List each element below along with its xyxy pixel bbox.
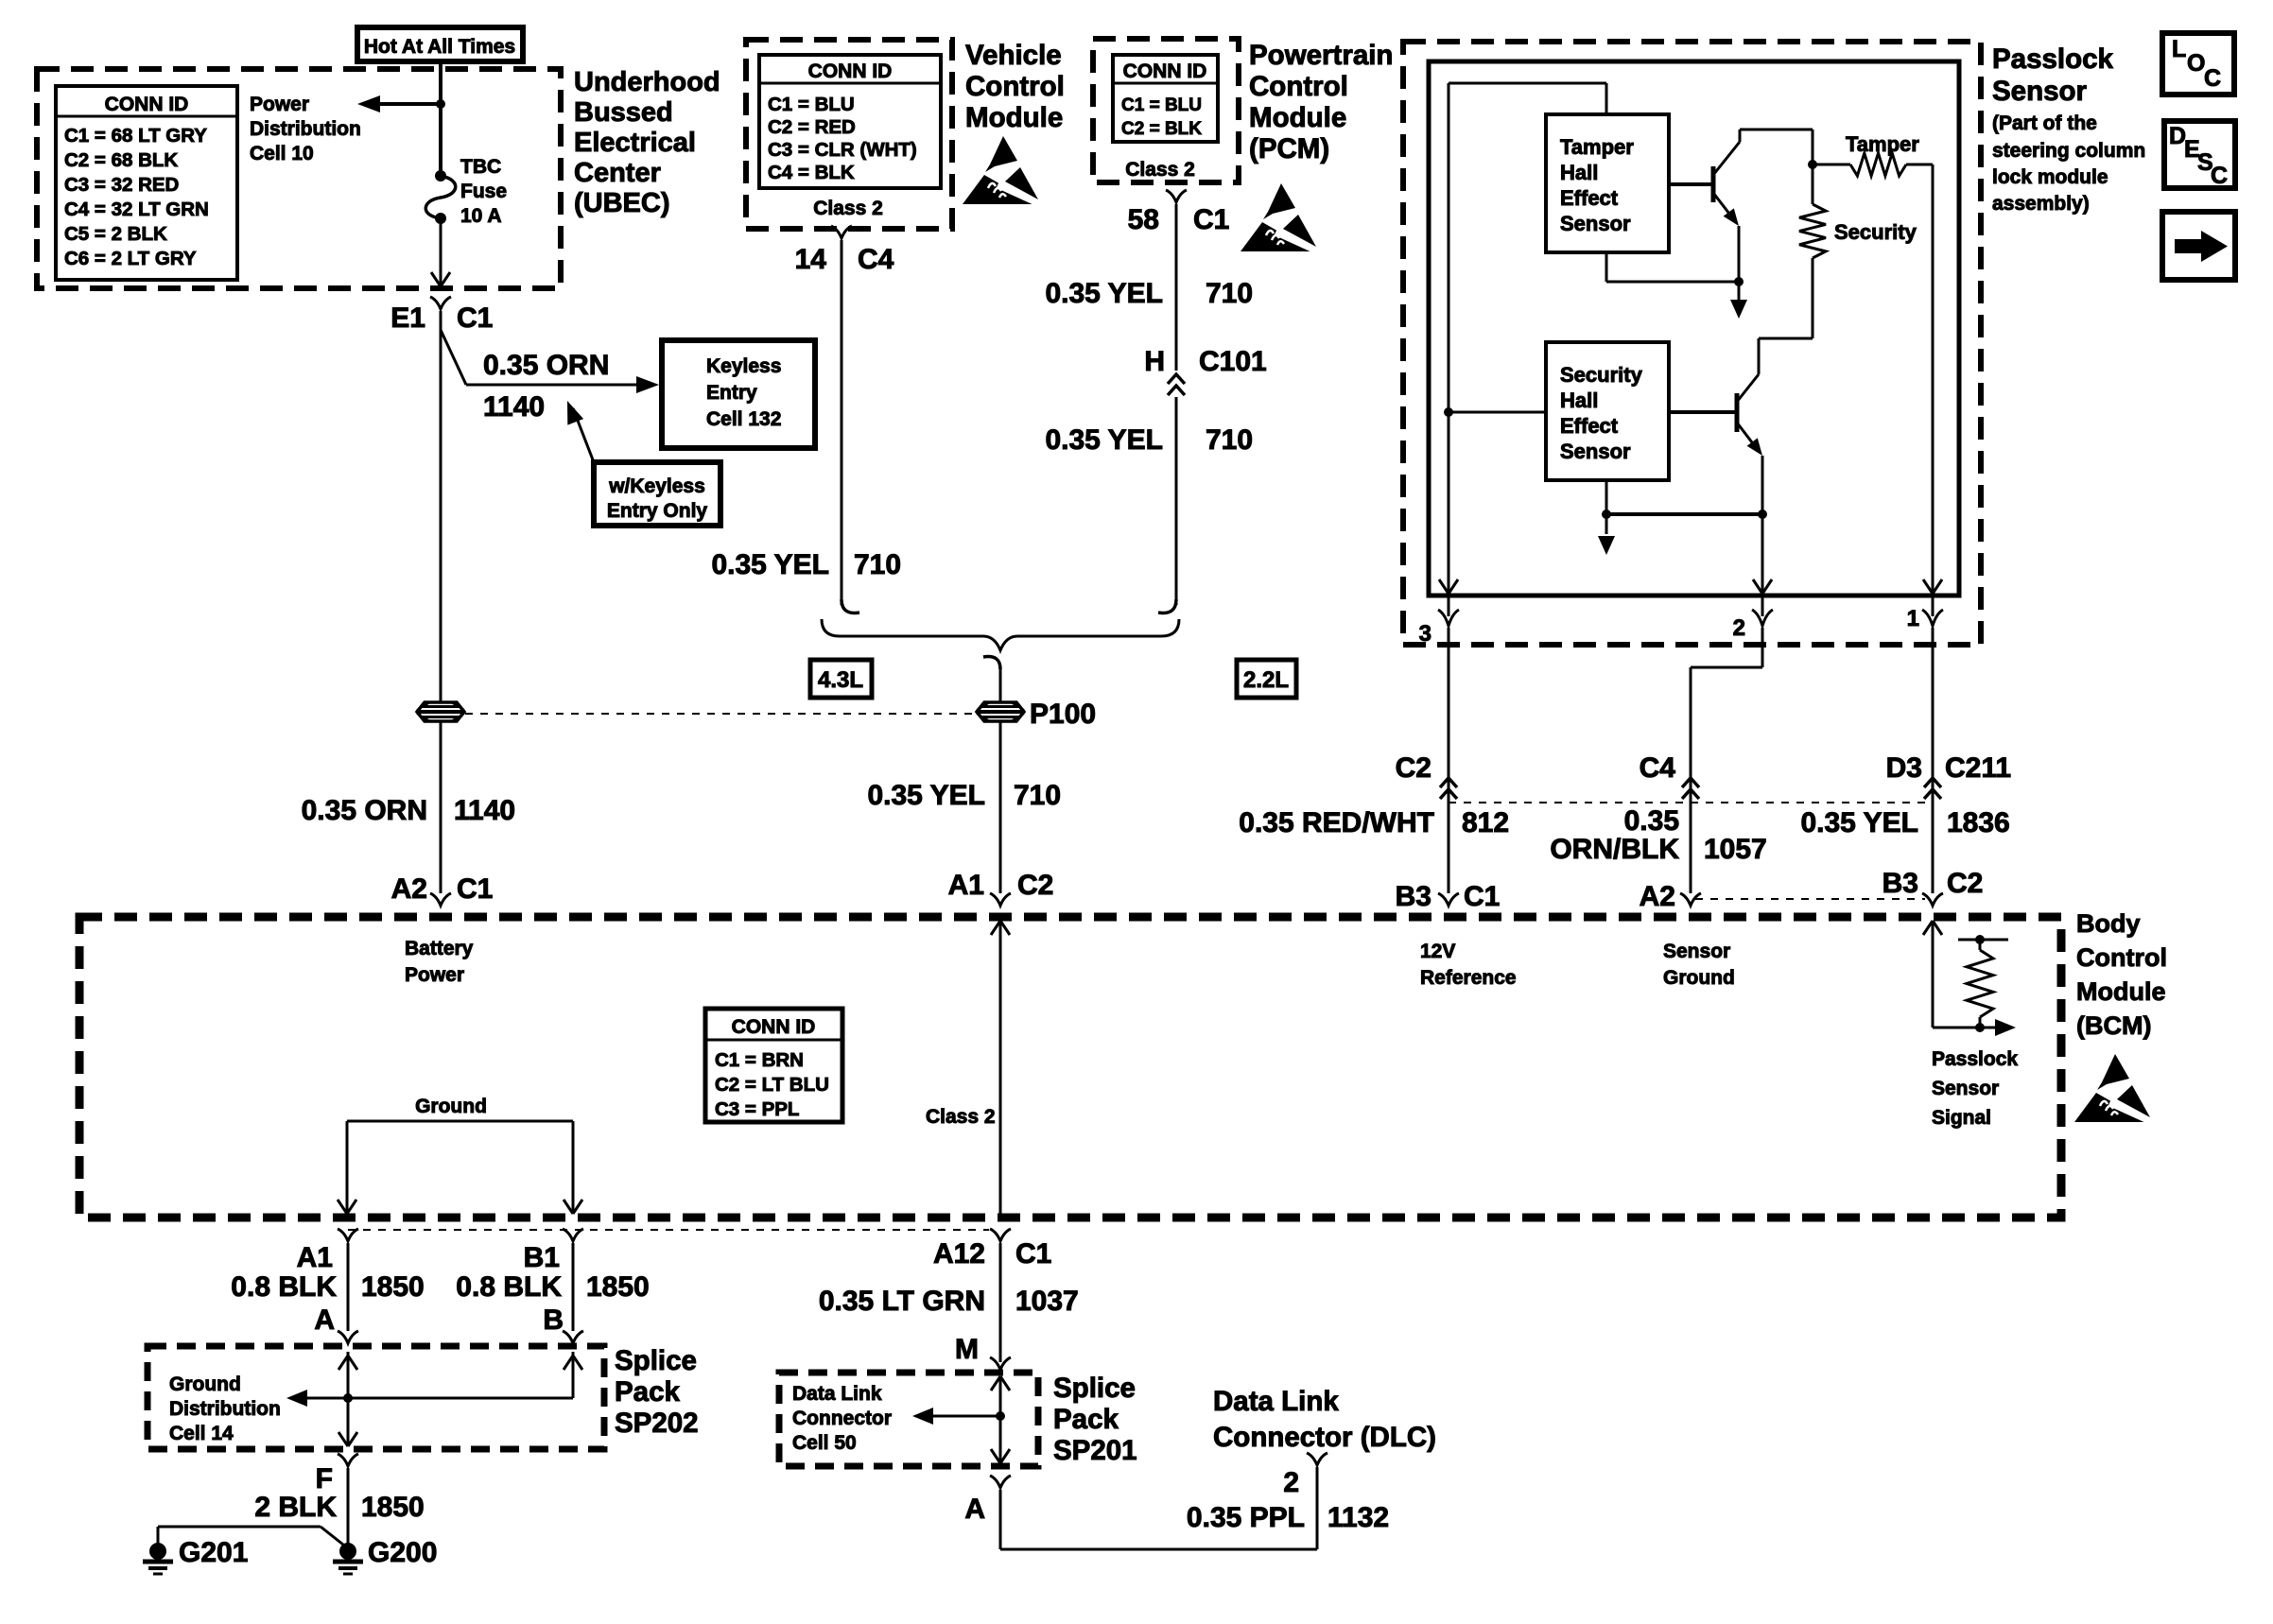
svg-text:710: 710 xyxy=(1206,424,1253,456)
wire 2 BLK 1850 xyxy=(347,1468,350,1551)
connector F xyxy=(316,1454,358,1494)
annotation (Part of the steering column lock module assembly) xyxy=(1992,112,2145,215)
svg-text:Tamper: Tamper xyxy=(1560,135,1634,159)
ESD symbol (VCM) xyxy=(963,136,1041,205)
connector B (splice pack) xyxy=(543,1304,583,1343)
svg-text:C2 = 68 BLK: C2 = 68 BLK xyxy=(64,149,178,171)
svg-text:Powertrain: Powertrain xyxy=(1249,40,1393,71)
component box Tamper Hall Effect Sensor xyxy=(1546,114,1669,252)
arrow to Power Distribution xyxy=(357,95,441,112)
svg-text:B1: B1 xyxy=(524,1242,560,1273)
svg-text:Passlock: Passlock xyxy=(1992,43,2114,75)
svg-text:Connector: Connector xyxy=(792,1408,892,1429)
module title Splice Pack SP201 xyxy=(1053,1373,1137,1466)
svg-text:w/Keyless: w/Keyless xyxy=(608,475,705,497)
icon box DESC xyxy=(2164,121,2235,189)
ESD symbol (BCM) xyxy=(2074,1054,2153,1123)
svg-text:14: 14 xyxy=(795,244,827,275)
module title Vehicle Control Module xyxy=(965,40,1065,133)
svg-text:Connector (DLC): Connector (DLC) xyxy=(1213,1422,1436,1453)
svg-text:Effect: Effect xyxy=(1560,414,1619,438)
svg-text:Cell 14: Cell 14 xyxy=(169,1423,234,1444)
wire Q1 emitter down xyxy=(1738,226,1741,282)
wire 0.8 BLK 1850 (A) xyxy=(347,1243,350,1331)
brace joining VCM and PCM wires xyxy=(822,619,1179,650)
label 0.35 YEL | 710 (PCM lower) xyxy=(1045,424,1253,456)
connector 58 / C1 xyxy=(1128,190,1230,235)
reference box Keyless Entry Cell 132 xyxy=(662,340,815,448)
svg-text:O: O xyxy=(2187,50,2205,77)
inline connector C4 (pin2) xyxy=(1640,752,1699,799)
svg-text:Keyless: Keyless xyxy=(706,355,781,377)
arrow to Ground Distribution xyxy=(286,1390,348,1407)
connector A (SP201 out) xyxy=(964,1476,1011,1525)
svg-text:1140: 1140 xyxy=(483,391,545,423)
svg-text:C1 = BRN: C1 = BRN xyxy=(715,1049,804,1071)
svg-text:C2: C2 xyxy=(1017,870,1053,901)
svg-text:C2 = LT BLU: C2 = LT BLU xyxy=(715,1074,829,1096)
svg-text:1850: 1850 xyxy=(361,1271,425,1303)
connector A2 / C1 (BCM) xyxy=(391,873,494,906)
ground G201 xyxy=(143,1537,248,1574)
wire brace to P100 xyxy=(983,657,1000,703)
node junction on battery feed xyxy=(436,99,445,109)
label box 4.3L xyxy=(810,660,872,698)
connector table BCM CONN ID xyxy=(705,1009,842,1122)
passlock inner housing box xyxy=(1429,61,1959,596)
connector table PCM CONN ID xyxy=(1113,55,1218,142)
thin dashed connector line A2-C2 row xyxy=(1695,898,1925,900)
svg-text:Class 2: Class 2 xyxy=(813,198,883,219)
svg-text:CONN ID: CONN ID xyxy=(105,94,189,115)
module box Powertrain Control Module (dashed) xyxy=(1093,39,1239,182)
label 0.35 YEL | 1836 xyxy=(1800,807,2009,838)
svg-text:M: M xyxy=(955,1334,979,1365)
svg-text:assembly): assembly) xyxy=(1992,193,2090,215)
resistor BCM passlock pull-up xyxy=(1958,935,2008,1032)
connector B3 / C2 (BCM passlock signal) xyxy=(1883,868,1984,906)
annotation Battery Power xyxy=(405,938,474,986)
svg-text:3: 3 xyxy=(1419,621,1431,647)
svg-text:SP201: SP201 xyxy=(1053,1435,1137,1466)
svg-text:1140: 1140 xyxy=(454,795,515,826)
node tamper junction xyxy=(1808,160,1817,169)
svg-text:0.35: 0.35 xyxy=(1624,805,1679,837)
svg-text:0.35 YEL: 0.35 YEL xyxy=(1045,424,1163,456)
svg-text:B: B xyxy=(543,1304,564,1336)
svg-text:C4 = 32 LT GRN: C4 = 32 LT GRN xyxy=(64,199,209,220)
transistor Q1 (tamper) xyxy=(1669,130,1740,226)
connector A1 (ground) xyxy=(297,1229,358,1273)
thin dashed connector line C2-C4-C211 xyxy=(1449,802,1933,803)
module title Body Control Module (BCM) xyxy=(2076,909,2167,1040)
svg-text:12V: 12V xyxy=(1420,941,1455,962)
wire security box bottom stub xyxy=(1602,480,1762,519)
svg-text:Entry Only: Entry Only xyxy=(607,500,708,522)
svg-text:Splice: Splice xyxy=(615,1345,697,1376)
annotation Ground Distribution Cell 14 xyxy=(169,1373,281,1444)
connector passlock pin 2 xyxy=(1733,610,1773,641)
label 0.8 BLK | 1850 (A) xyxy=(231,1271,424,1303)
svg-text:0.35 PPL: 0.35 PPL xyxy=(1187,1502,1305,1533)
svg-text:lock module: lock module xyxy=(1992,166,2108,188)
label 0.35 YEL | 710 (VCM) xyxy=(711,549,901,580)
svg-text:0.35 ORN: 0.35 ORN xyxy=(483,350,609,381)
svg-text:Fuse: Fuse xyxy=(460,181,507,202)
wire 0.35 PPL 1132 xyxy=(1000,1467,1317,1549)
svg-text:Sensor: Sensor xyxy=(1560,440,1631,463)
label 0.35 LT GRN | 1037 xyxy=(819,1286,1079,1317)
svg-text:Signal: Signal xyxy=(1932,1107,1991,1129)
inline connector C2 (pin3) xyxy=(1396,752,1457,799)
annotation Power Distribution Cell 10 xyxy=(250,94,361,164)
svg-text:G201: G201 xyxy=(179,1537,248,1568)
connector table UBEC CONN ID xyxy=(56,86,237,280)
svg-text:C4 = BLK: C4 = BLK xyxy=(768,162,855,183)
inline connector D3 / C211 (pin1) xyxy=(1886,752,2011,799)
wire passlock pin3 vertical xyxy=(1439,83,1458,594)
svg-text:0.35 LT GRN: 0.35 LT GRN xyxy=(819,1286,985,1317)
svg-text:C: C xyxy=(2211,163,2228,189)
connector A12 / C1 xyxy=(933,1229,1051,1270)
note box w/Keyless Entry Only with arrow xyxy=(567,401,720,526)
svg-text:H: H xyxy=(1144,346,1165,377)
svg-text:Sensor: Sensor xyxy=(1992,76,2088,107)
dashed grommet link line xyxy=(465,713,976,715)
wire tamper box bottom stub xyxy=(1606,252,1744,286)
svg-text:0.8 BLK: 0.8 BLK xyxy=(231,1271,337,1303)
wire G201 branch xyxy=(158,1527,348,1548)
module title Data Link Connector (DLC) xyxy=(1213,1386,1436,1453)
wire Q2 emitter to pin2 xyxy=(1753,456,1772,594)
svg-text:C2 = BLK: C2 = BLK xyxy=(1121,119,1202,139)
svg-text:2.2L: 2.2L xyxy=(1243,667,1289,693)
svg-text:G200: G200 xyxy=(368,1537,437,1568)
svg-text:C1: C1 xyxy=(457,873,493,905)
connector A1 / C2 (BCM) xyxy=(948,870,1054,906)
icon box LOC xyxy=(2162,33,2234,95)
svg-text:10 A: 10 A xyxy=(460,205,502,227)
svg-text:0.35 ORN: 0.35 ORN xyxy=(302,795,427,826)
label 0.35 PPL | 1132 xyxy=(1187,1502,1389,1533)
svg-text:A1: A1 xyxy=(948,870,984,901)
wire 0.35 ORN 1140 vertical xyxy=(440,311,442,893)
arrow passlock sensor signal xyxy=(1980,1019,2016,1036)
svg-text:Data Link: Data Link xyxy=(792,1383,882,1405)
svg-text:C1: C1 xyxy=(457,302,493,334)
svg-text:710: 710 xyxy=(1014,780,1061,811)
svg-text:Hall: Hall xyxy=(1560,161,1598,184)
svg-text:(Part of the: (Part of the xyxy=(1992,112,2097,134)
annotation Sensor Ground xyxy=(1663,941,1735,989)
svg-text:Bussed: Bussed xyxy=(574,97,673,128)
arrow emitter current (tamper) xyxy=(1730,282,1747,319)
wire splice SP201 vertical xyxy=(991,1376,1010,1463)
svg-text:A1: A1 xyxy=(297,1242,333,1273)
svg-text:E1: E1 xyxy=(390,302,425,334)
svg-text:Ground: Ground xyxy=(1663,967,1735,989)
connector DLC pin 2 xyxy=(1283,1453,1327,1498)
svg-text:B3: B3 xyxy=(1396,881,1431,912)
svg-text:Electrical: Electrical xyxy=(574,128,696,158)
svg-text:C1: C1 xyxy=(1015,1238,1051,1270)
svg-text:CONN ID: CONN ID xyxy=(808,60,893,82)
svg-text:Ground: Ground xyxy=(415,1096,487,1117)
svg-text:0.35 RED/WHT: 0.35 RED/WHT xyxy=(1239,807,1434,838)
svg-text:Cell 10: Cell 10 xyxy=(250,143,314,164)
svg-text:0.35 YEL: 0.35 YEL xyxy=(867,780,985,811)
svg-text:710: 710 xyxy=(1206,278,1253,309)
svg-text:Sensor: Sensor xyxy=(1663,941,1730,962)
connector A2 (BCM sensor ground) xyxy=(1640,881,1701,912)
svg-text:Battery: Battery xyxy=(405,938,474,959)
svg-text:Hot At All Times: Hot At All Times xyxy=(364,36,515,58)
ground bracket inside BCM xyxy=(338,1096,582,1214)
wire Q1 collector to tamper node xyxy=(1740,130,1813,164)
annotation Data Link Connector Cell 50 xyxy=(792,1383,892,1454)
svg-text:Cell 50: Cell 50 xyxy=(792,1432,857,1454)
svg-text:TBC: TBC xyxy=(460,156,501,178)
svg-text:Distribution: Distribution xyxy=(250,118,361,140)
svg-text:Control: Control xyxy=(2076,943,2167,972)
svg-text:Control: Control xyxy=(1249,71,1348,102)
module box Passlock Sensor (dashed) xyxy=(1403,42,1981,645)
fuse TBC Fuse 10 A xyxy=(425,170,456,224)
svg-text:0.8 BLK: 0.8 BLK xyxy=(456,1271,562,1303)
svg-text:Vehicle: Vehicle xyxy=(965,40,1062,71)
svg-text:C1 = BLU: C1 = BLU xyxy=(768,94,855,115)
svg-text:0.35 YEL: 0.35 YEL xyxy=(1800,807,1918,838)
wire Class 2 inside BCM xyxy=(991,921,1010,1218)
svg-text:1850: 1850 xyxy=(361,1492,425,1523)
label 0.35 ORN 1140 (keyless branch) xyxy=(483,350,609,423)
svg-text:Module: Module xyxy=(1249,102,1346,133)
svg-text:Module: Module xyxy=(965,102,1063,133)
svg-text:0.35 YEL: 0.35 YEL xyxy=(711,549,829,580)
svg-text:Reference: Reference xyxy=(1420,967,1517,989)
svg-text:C1: C1 xyxy=(1464,881,1500,912)
svg-text:ORN/BLK: ORN/BLK xyxy=(1550,834,1679,865)
svg-text:1: 1 xyxy=(1907,606,1919,631)
svg-text:C1 = 68 LT GRY: C1 = 68 LT GRY xyxy=(64,125,207,147)
annotation Passlock Sensor Signal xyxy=(1932,1048,2018,1129)
ESD symbol (PCM) xyxy=(1241,183,1319,252)
svg-text:4.3L: 4.3L xyxy=(818,667,863,693)
svg-text:Security: Security xyxy=(1834,220,1917,244)
wire pin1 to BCM (0.35 YEL 1836) xyxy=(1932,628,1935,893)
svg-text:Sensor: Sensor xyxy=(1560,212,1631,235)
svg-text:A2: A2 xyxy=(391,873,427,905)
svg-text:A: A xyxy=(964,1494,985,1525)
svg-text:1037: 1037 xyxy=(1015,1286,1079,1317)
label 0.8 BLK | 1850 (B) xyxy=(456,1271,649,1303)
svg-text:C3 = PPL: C3 = PPL xyxy=(715,1098,799,1120)
svg-text:Entry: Entry xyxy=(706,382,757,404)
label Class 2 (PCM) xyxy=(1125,159,1195,181)
fuse label TBC Fuse 10 A xyxy=(460,156,507,227)
svg-text:C1: C1 xyxy=(1193,204,1229,235)
svg-text:Effect: Effect xyxy=(1560,186,1619,210)
wire passlock top feed xyxy=(1449,83,1606,114)
svg-text:C3 = CLR (WHT): C3 = CLR (WHT) xyxy=(768,139,917,161)
svg-text:C3 = 32 RED: C3 = 32 RED xyxy=(64,174,179,196)
module title Underhood Bussed Electrical Center (UBEC) xyxy=(574,67,720,218)
resistor Tamper xyxy=(1813,132,1933,176)
svg-text:Tamper: Tamper xyxy=(1846,132,1919,156)
wire pin3 to BCM (0.35 RED/WHT 812) xyxy=(1448,628,1450,893)
connector table VCM CONN ID xyxy=(759,55,941,188)
svg-text:C2 = RED: C2 = RED xyxy=(768,116,856,138)
svg-text:C101: C101 xyxy=(1199,346,1267,377)
wire battery feed from Hot At All Times xyxy=(439,61,442,176)
wire pin stubs below inner box xyxy=(1449,596,1933,616)
svg-text:C2: C2 xyxy=(1947,868,1983,899)
svg-text:F: F xyxy=(316,1463,333,1494)
svg-text:CONN ID: CONN ID xyxy=(732,1016,816,1038)
svg-text:1850: 1850 xyxy=(586,1271,650,1303)
svg-text:Hall: Hall xyxy=(1560,389,1598,412)
thin dashed connector line A1-B1-A12 xyxy=(348,1229,989,1231)
svg-text:L: L xyxy=(2172,36,2186,62)
branch wire to Keyless Entry xyxy=(441,330,659,393)
svg-text:1057: 1057 xyxy=(1704,834,1767,865)
component box Security Hall Effect Sensor xyxy=(1546,342,1669,480)
wire passlock signal into BCM xyxy=(1923,921,1980,1028)
wire passlock pin1 vertical xyxy=(1923,164,1942,594)
svg-text:A12: A12 xyxy=(933,1238,985,1270)
svg-text:(PCM): (PCM) xyxy=(1249,133,1329,164)
module title Powertrain Control Module (PCM) xyxy=(1249,40,1393,164)
label box Hot At All Times xyxy=(357,27,523,61)
svg-text:Splice: Splice xyxy=(1053,1373,1136,1404)
svg-text:A2: A2 xyxy=(1640,881,1675,912)
wire splice B into SP202 xyxy=(348,1352,582,1398)
module box Vehicle Control Module (dashed) xyxy=(746,40,952,229)
resistor Security xyxy=(1799,164,1917,258)
svg-text:CONN ID: CONN ID xyxy=(1123,60,1207,82)
label 0.35 ORN/BLK | 1057 xyxy=(1550,805,1766,865)
svg-text:1132: 1132 xyxy=(1327,1502,1389,1533)
svg-text:Center: Center xyxy=(574,158,661,188)
svg-text:(BCM): (BCM) xyxy=(2076,1011,2151,1040)
connector A (splice pack) xyxy=(314,1304,358,1343)
svg-text:2: 2 xyxy=(1733,615,1745,641)
svg-text:0.35 YEL: 0.35 YEL xyxy=(1045,278,1163,309)
connector passlock pin 1 xyxy=(1907,606,1943,631)
svg-text:A: A xyxy=(314,1304,335,1336)
svg-text:Ground: Ground xyxy=(169,1373,241,1395)
wire Q2 base from left rail xyxy=(1444,407,1546,417)
svg-text:2: 2 xyxy=(1283,1467,1299,1498)
svg-text:Body: Body xyxy=(2076,909,2141,938)
label box 2.2L xyxy=(1237,660,1296,698)
label Class 2 (VCM) xyxy=(813,198,883,219)
inline connector H / C101 xyxy=(1144,346,1266,395)
svg-text:Pack: Pack xyxy=(1053,1404,1119,1435)
svg-text:Power: Power xyxy=(250,94,309,115)
svg-text:Cell 132: Cell 132 xyxy=(706,408,781,430)
connector B3 / C1 (BCM) xyxy=(1396,881,1501,912)
svg-text:Power: Power xyxy=(405,964,464,986)
arrow emitter current (security) xyxy=(1598,514,1615,555)
wire 0.35 YEL 710 (VCM) xyxy=(842,240,859,613)
splice pack box SP202 (dashed) xyxy=(147,1346,604,1449)
svg-text:Data Link: Data Link xyxy=(1213,1386,1339,1417)
svg-text:1836: 1836 xyxy=(1947,807,2010,838)
svg-text:steering column: steering column xyxy=(1992,140,2145,162)
wire pin2 to BCM (0.35 ORN/BLK 1057) xyxy=(1691,628,1762,893)
connector E1 / C1 xyxy=(390,297,493,334)
connector B1 (ground) xyxy=(524,1229,583,1273)
svg-text:C5 = 2 BLK: C5 = 2 BLK xyxy=(64,223,167,245)
svg-text:B3: B3 xyxy=(1883,868,1918,899)
splice pack box SP201 (dashed) xyxy=(779,1373,1038,1466)
module box Body Control Module (dashed) xyxy=(79,917,2061,1218)
annotation 12V Reference xyxy=(1420,941,1517,989)
arrow to Data Link Connector xyxy=(912,1408,1000,1425)
svg-text:58: 58 xyxy=(1128,204,1159,235)
ground G200 xyxy=(333,1537,437,1574)
svg-text:2 BLK: 2 BLK xyxy=(254,1492,337,1523)
svg-text:SP202: SP202 xyxy=(615,1408,699,1439)
svg-text:Class 2: Class 2 xyxy=(1125,159,1195,181)
label 0.35 YEL | 710 (PCM upper) xyxy=(1045,278,1253,309)
wire fuse output xyxy=(431,218,450,286)
module title Passlock Sensor xyxy=(1992,43,2114,107)
module box UBEC (dashed) xyxy=(37,69,561,288)
svg-text:Pack: Pack xyxy=(615,1376,680,1408)
svg-text:C6 = 2 LT GRY: C6 = 2 LT GRY xyxy=(64,248,197,269)
svg-text:P100: P100 xyxy=(1030,699,1096,730)
wire 0.35 YEL 710 (PCM lower) xyxy=(1158,397,1176,613)
transistor Q2 (security) xyxy=(1669,374,1762,456)
label 2 BLK | 1850 xyxy=(254,1492,424,1523)
label Class 2 (BCM wire) xyxy=(926,1106,996,1128)
wire splice A through SP202 xyxy=(338,1352,357,1446)
svg-text:Passlock: Passlock xyxy=(1932,1048,2018,1070)
wire 0.35 YEL 710 (PCM upper) xyxy=(1175,204,1178,371)
svg-text:Underhood: Underhood xyxy=(574,67,720,97)
svg-text:C: C xyxy=(2204,65,2221,92)
wire security resistor to Q2 collector xyxy=(1759,258,1813,374)
label 0.35 RED/WHT | 812 xyxy=(1239,807,1509,838)
svg-text:Module: Module xyxy=(2076,977,2166,1006)
connector 14 / C4 xyxy=(795,226,894,275)
svg-text:C4: C4 xyxy=(858,244,894,275)
svg-text:(UBEC): (UBEC) xyxy=(574,188,670,218)
connector M xyxy=(955,1334,1011,1370)
svg-text:812: 812 xyxy=(1462,807,1509,838)
grommet P100 xyxy=(977,699,1096,730)
svg-text:Security: Security xyxy=(1560,363,1643,387)
label 0.35 ORN | 1140 xyxy=(302,795,515,826)
label 0.35 YEL | 710 (below P100) xyxy=(867,780,1061,811)
svg-text:Control: Control xyxy=(965,71,1065,102)
svg-text:Class 2: Class 2 xyxy=(926,1106,996,1128)
svg-text:Sensor: Sensor xyxy=(1932,1078,1999,1099)
wire 0.35 YEL 710 to BCM xyxy=(999,720,1002,893)
svg-text:C211: C211 xyxy=(1945,752,2011,784)
wire 0.8 BLK 1850 (B) xyxy=(572,1243,575,1331)
wire 0.35 LT GRN 1037 xyxy=(999,1243,1002,1362)
svg-text:C4: C4 xyxy=(1640,752,1676,784)
svg-text:C2: C2 xyxy=(1396,752,1431,784)
module title Splice Pack SP202 xyxy=(615,1345,699,1439)
grommet on ORN wire xyxy=(417,702,464,721)
connector passlock pin 3 xyxy=(1419,610,1459,647)
icon box arrow xyxy=(2162,212,2235,280)
svg-text:Distribution: Distribution xyxy=(169,1398,281,1420)
